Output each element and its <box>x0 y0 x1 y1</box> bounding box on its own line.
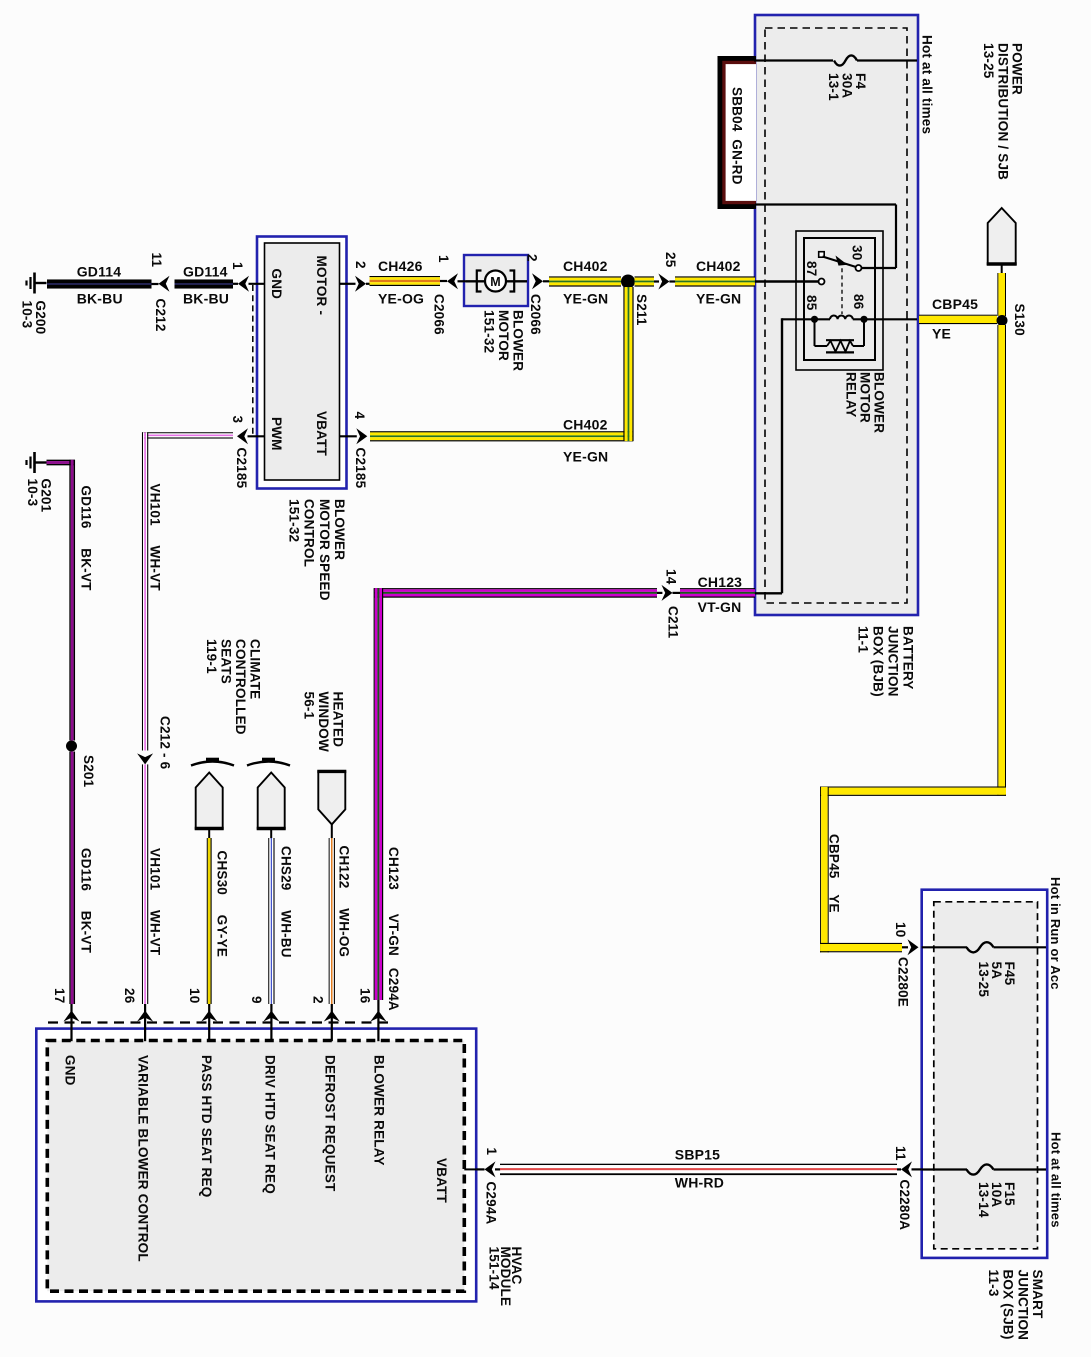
svg-text:CBP45 YE: CBP45 YE <box>827 834 842 913</box>
U1 pin 4 arrow <box>356 428 367 444</box>
U1 pin 3 arrow <box>237 428 248 444</box>
wire pin4 stub <box>340 435 357 437</box>
svg-text:CH402: CH402 <box>563 258 608 274</box>
svg-text:YE-GN: YE-GN <box>563 449 608 465</box>
relay inner box <box>804 238 875 360</box>
ground G200 <box>27 273 47 294</box>
svg-text:BOX (BJB): BOX (BJB) <box>871 626 886 697</box>
bracket over climate seats arrows <box>191 759 290 765</box>
wire pin2 stub <box>340 283 356 285</box>
svg-text:JUNCTION: JUNCTION <box>886 626 901 697</box>
svg-text:PWM: PWM <box>269 417 284 451</box>
HVAC module box outline <box>36 1029 476 1302</box>
svg-text:VH101 WH-VT: VH101 WH-VT <box>148 848 163 956</box>
svg-text:3: 3 <box>230 416 245 424</box>
wire relay coil line right <box>853 318 917 320</box>
wire stub below heated window pentagon <box>331 825 333 840</box>
wire lead pin2 <box>331 1004 333 1041</box>
svg-text:86: 86 <box>851 294 866 310</box>
wire CH402 YE-GN vertical from S211 <box>623 287 633 441</box>
svg-text:CH123 VT-GN C294A: CH123 VT-GN C294A <box>386 847 401 1011</box>
svg-text:Hot at all times: Hot at all times <box>1048 1132 1063 1228</box>
wire F4 feed (y=60.5) left segment <box>754 59 833 61</box>
wire CBP45 YE horizontal from BJB <box>919 315 997 324</box>
svg-text:10: 10 <box>187 988 202 1003</box>
SJB pin 10 arrow <box>908 939 919 955</box>
motor pin 1 arrow <box>447 273 458 289</box>
svg-text:10-3: 10-3 <box>20 301 35 329</box>
svg-text:VARIABLE BLOWER CONTROL: VARIABLE BLOWER CONTROL <box>135 1055 150 1262</box>
svg-text:VH101 WH-VT: VH101 WH-VT <box>148 484 163 592</box>
svg-text:Hot at all times: Hot at all times <box>920 35 935 134</box>
label BLOWER MOTOR SPEED CONTROL 151-32 (U1) <box>287 499 348 601</box>
label HVAC MODULE 151-14 <box>487 1247 524 1307</box>
label POWER DISTRIBUTION / SJB 13-25 <box>981 43 1024 180</box>
wire lead after C211 <box>673 592 681 594</box>
wire lead after pin 25 <box>669 280 675 282</box>
wire lead pin9 <box>270 1004 272 1041</box>
svg-text:CH402: CH402 <box>696 258 741 274</box>
svg-text:C2066: C2066 <box>432 294 447 335</box>
wire CH123 VT-GN to BJB <box>680 588 755 598</box>
wire lead pin16 <box>377 1000 379 1041</box>
relay resistor loop left <box>814 319 816 346</box>
svg-text:SMART: SMART <box>1030 1270 1045 1320</box>
wire GD116 BK-VT vertical lower <box>69 752 75 1005</box>
U1 pin 1 arrow <box>238 276 249 292</box>
svg-text:BK-BU: BK-BU <box>77 291 123 307</box>
wire motor pin1 stub <box>458 280 467 282</box>
svg-text:GD116 BK-VT: GD116 BK-VT <box>79 486 94 592</box>
svg-text:2: 2 <box>353 261 368 269</box>
wire CH123 inside BJB horizontal <box>754 592 782 594</box>
label G200 10-3 <box>20 301 48 335</box>
wire CH402 YE-GN segment B <box>675 276 755 286</box>
svg-text:M: M <box>490 275 501 289</box>
svg-text:GD114: GD114 <box>77 264 122 280</box>
U1 pin 2 arrow <box>355 276 366 292</box>
svg-text:4: 4 <box>352 412 367 420</box>
relay resistor R1 <box>826 340 854 352</box>
ground G201 <box>27 452 47 473</box>
off-page arrow (pass seat) <box>196 773 223 829</box>
fuse F4 <box>834 55 857 65</box>
svg-text:87: 87 <box>804 261 819 276</box>
svg-text:BLOWER: BLOWER <box>511 310 526 371</box>
relay switch blade <box>823 257 857 268</box>
wire GD116 BK-VT horizontal stub <box>47 460 75 466</box>
svg-text:CH122 WH-OG: CH122 WH-OG <box>337 846 352 958</box>
relay pin 87 contact <box>819 279 825 285</box>
svg-text:YE-GN: YE-GN <box>696 291 741 307</box>
wire stub below pass pentagon <box>208 829 210 840</box>
svg-text:DISTRIBUTION / SJB: DISTRIBUTION / SJB <box>995 43 1010 180</box>
wire VBATT stub inside HVAC <box>464 1168 476 1170</box>
svg-text:YE: YE <box>932 326 951 342</box>
wire VBATT lead <box>476 1168 484 1170</box>
wire GD114 BK-BU segment 2 <box>175 279 234 288</box>
svg-text:CH426: CH426 <box>378 258 423 274</box>
svg-text:1: 1 <box>484 1148 499 1156</box>
wire CH123 inside BJB riser <box>781 318 783 593</box>
svg-text:SEATS: SEATS <box>218 639 233 684</box>
svg-text:WH-RD: WH-RD <box>675 1175 724 1191</box>
svg-text:1: 1 <box>436 255 451 263</box>
svg-text:MOTOR -: MOTOR - <box>314 256 329 316</box>
pin 25 arrow <box>658 274 669 290</box>
relay actuation dashed line <box>841 261 843 314</box>
wire GD114 BK-BU segment 1 <box>47 279 152 288</box>
HVAC pin 16 arrow <box>370 1011 386 1022</box>
smart junction box (SJB) outline <box>922 890 1047 1258</box>
label F15 10A 13-14 <box>976 1182 1017 1218</box>
svg-text:VBATT: VBATT <box>434 1158 449 1204</box>
wire GD116 BK-VT vertical upper <box>69 460 75 741</box>
svg-text:26: 26 <box>122 988 137 1004</box>
label SMART JUNCTION BOX (SJB) 11-3 <box>986 1270 1045 1341</box>
svg-text:BLOWER RELAY: BLOWER RELAY <box>371 1055 386 1166</box>
svg-text:C294A: C294A <box>484 1182 499 1225</box>
blower motor speed control box outline U1 <box>257 237 347 489</box>
BJB inner dashed border <box>765 28 907 603</box>
svg-text:S201: S201 <box>81 755 96 788</box>
label CLIMATE CONTROLLED SEATS 119-1 <box>204 639 263 735</box>
svg-text:C212: C212 <box>153 299 168 332</box>
svg-text:9: 9 <box>249 996 264 1004</box>
wire relay coil line left <box>782 318 830 320</box>
HVAC pin 17 arrow <box>64 1011 80 1022</box>
wire lead to C211 <box>657 592 662 594</box>
wire CBP45 YE horizontal to SJB <box>820 943 902 952</box>
wire lead to U1 pin 1 <box>233 283 238 285</box>
HVAC pin 10 arrow <box>201 1011 217 1022</box>
wire VH101 WH-VT vertical lower <box>142 764 148 1004</box>
svg-text:BATTERY: BATTERY <box>901 626 916 690</box>
svg-text:10: 10 <box>893 922 908 937</box>
junction dot relay 85 <box>811 316 818 323</box>
U1 internal dashed link pin1-pin3 <box>252 285 254 434</box>
svg-text:BK-BU: BK-BU <box>183 291 229 307</box>
svg-text:BLOWER: BLOWER <box>332 499 347 560</box>
wire pin3 stub <box>248 435 266 437</box>
label HEATED WINDOW 56-1 <box>301 692 345 752</box>
svg-text:25: 25 <box>663 252 678 268</box>
svg-text:C2185: C2185 <box>353 448 368 489</box>
off-page arrow (power distribution) <box>988 208 1016 264</box>
svg-text:VBATT: VBATT <box>314 411 329 457</box>
HVAC pin 26 arrow <box>137 1011 153 1022</box>
wire SBB04 GN-RD thick feed bus <box>718 56 757 209</box>
wire CBP45 YE horizontal jog <box>820 787 1006 796</box>
svg-text:BLOWER: BLOWER <box>872 372 887 433</box>
svg-text:DEFROST REQUEST: DEFROST REQUEST <box>322 1055 337 1192</box>
off-page arrow (driver seat) <box>258 773 285 829</box>
wire lead pin17 <box>70 1004 72 1041</box>
svg-text:13-25: 13-25 <box>981 43 996 79</box>
label F4 30A 13-1 <box>826 73 868 101</box>
connector C212-6 arrow <box>137 753 153 764</box>
wire VH101 WH-VT vertical upper <box>142 432 148 750</box>
HVAC module inner dashed border <box>47 1041 464 1292</box>
connector C212 arrow <box>159 276 170 292</box>
svg-text:CHS30 GY-YE: CHS30 GY-YE <box>215 851 230 958</box>
svg-text:C2185: C2185 <box>234 448 249 489</box>
blower motor speed control inner box <box>265 243 340 480</box>
wire CBP45 YE vertical upper <box>997 273 1006 316</box>
relay switch blade fixed contact square <box>819 252 825 258</box>
connector C211 arrow <box>662 585 673 601</box>
battery junction box (BJB) outline <box>755 15 918 615</box>
svg-text:MOTOR: MOTOR <box>858 372 873 423</box>
HVAC pin 9 arrow <box>263 1011 279 1022</box>
wire lead to C212 <box>152 283 159 285</box>
svg-text:CONTROL: CONTROL <box>302 499 317 567</box>
wire CH402 YE-GN segment A <box>549 276 621 286</box>
svg-text:119-1: 119-1 <box>204 639 219 674</box>
svg-text:RELAY: RELAY <box>844 372 859 418</box>
svg-text:POWER: POWER <box>1010 43 1025 95</box>
wire lead to SJB pin 10 <box>902 946 908 948</box>
svg-text:PASS HTD SEAT REQ: PASS HTD SEAT REQ <box>199 1055 214 1197</box>
blower motor M symbol <box>477 271 514 292</box>
wire SBB04 to relay pin 30 horizontal (y=204.5) <box>755 203 896 205</box>
HVAC pin 1 arrow (VBATT) <box>485 1161 496 1177</box>
svg-text:C2280A: C2280A <box>897 1180 912 1231</box>
svg-text:30: 30 <box>850 245 865 260</box>
relay resistor loop right <box>863 319 865 346</box>
wire lead SBP15 <box>495 1168 501 1170</box>
svg-text:YE-OG: YE-OG <box>378 291 424 307</box>
svg-text:CBP45: CBP45 <box>932 296 978 312</box>
svg-text:C211: C211 <box>666 606 681 639</box>
svg-text:85: 85 <box>804 295 819 311</box>
svg-text:CH123: CH123 <box>698 574 743 590</box>
wire lead to pin 25 <box>654 280 659 282</box>
wire lead pin26 <box>144 1004 146 1041</box>
wire relay pin30 riser <box>895 205 897 269</box>
svg-text:CHS29 WH-BU: CHS29 WH-BU <box>279 846 294 958</box>
wire to relay pin 30 <box>861 267 896 269</box>
svg-text:11: 11 <box>149 253 164 268</box>
wire F15 row right <box>994 1168 1047 1170</box>
svg-text:10-3: 10-3 <box>25 479 40 507</box>
wire F15 row <box>922 1168 967 1170</box>
svg-text:BOX (SJB): BOX (SJB) <box>1001 1270 1016 1340</box>
relay blade arrowhead <box>836 256 848 266</box>
wire lead CH402 <box>543 280 550 282</box>
svg-text:YE-GN: YE-GN <box>563 291 608 307</box>
wire CH123 VT-GN vertical <box>374 588 384 1000</box>
relay pin 30 contact <box>856 265 862 271</box>
label BLOWER MOTOR RELAY <box>844 372 887 433</box>
wire SBP15 WH-RD <box>500 1164 897 1175</box>
svg-text:GD116 BK-VT: GD116 BK-VT <box>79 848 94 954</box>
svg-text:1: 1 <box>230 262 245 270</box>
connector C294A dashed line across HVAC pins <box>48 1021 392 1023</box>
SJB inner dashed border <box>934 902 1038 1249</box>
wire CH402 after S211 <box>635 276 655 286</box>
svg-text:DRIV HTD SEAT REQ: DRIV HTD SEAT REQ <box>263 1055 278 1194</box>
fuse F45 <box>967 942 994 952</box>
svg-text:11-1: 11-1 <box>856 626 871 653</box>
svg-text:GD114: GD114 <box>183 264 228 280</box>
svg-text:CH402: CH402 <box>563 417 608 433</box>
relay resistor lead right <box>853 345 864 347</box>
junction S201 <box>66 741 77 752</box>
svg-text:MOTOR SPEED: MOTOR SPEED <box>317 499 332 601</box>
svg-text:11: 11 <box>893 1146 908 1161</box>
svg-text:SBB04 GN-RD: SBB04 GN-RD <box>730 87 745 185</box>
off-page arrow (heated window) <box>318 771 345 824</box>
svg-text:14: 14 <box>664 569 679 585</box>
label G201 10-3 <box>25 479 53 513</box>
wire VH101 WH-VT horizontal <box>142 432 233 438</box>
wire CH426 YE-OG <box>370 276 441 286</box>
wire CHS29 WH-BU <box>268 838 274 1004</box>
wire CH402 YE-GN corner+horizontal to pin4 <box>370 431 633 441</box>
svg-text:S130: S130 <box>1012 304 1027 336</box>
svg-text:151-14: 151-14 <box>487 1247 502 1291</box>
wire lead to motor pin1 <box>440 280 447 282</box>
wire stub below power arrow <box>1001 265 1003 275</box>
SJB pin 11 arrow <box>901 1161 912 1177</box>
svg-text:GND: GND <box>63 1055 78 1086</box>
label BLOWER MOTOR 151-32 (M1) <box>482 310 526 371</box>
svg-text:151-32: 151-32 <box>482 310 497 353</box>
svg-text:2: 2 <box>311 996 326 1004</box>
svg-text:13-1: 13-1 <box>826 73 841 101</box>
relay coil <box>830 316 853 320</box>
svg-text:SBP15: SBP15 <box>675 1147 720 1163</box>
wire through motor box <box>466 280 527 282</box>
relay outer box <box>796 231 883 370</box>
svg-text:GND: GND <box>269 269 284 300</box>
svg-text:13-25: 13-25 <box>976 962 991 998</box>
svg-text:11-3: 11-3 <box>986 1270 1001 1297</box>
junction dot relay 86 <box>860 316 867 323</box>
wire CH122 WH-OG <box>329 838 335 1004</box>
wire relay pin 87 lead <box>754 280 819 283</box>
wire CHS30 GY-YE <box>207 838 212 1004</box>
wire F45 row right <box>994 946 1047 948</box>
wire F45 row <box>922 946 967 948</box>
relay resistor lead left <box>815 345 828 347</box>
svg-text:MOTOR: MOTOR <box>496 310 511 361</box>
wire CBP45 YE vertical long <box>997 325 1006 796</box>
label F45 5A 13-25 <box>976 962 1017 998</box>
wire lead to SJB pin 11 <box>897 1168 901 1170</box>
fuse F15 <box>967 1164 994 1174</box>
svg-text:JUNCTION: JUNCTION <box>1015 1270 1030 1341</box>
svg-text:56-1: 56-1 <box>301 692 316 720</box>
svg-text:VT-GN: VT-GN <box>698 599 742 615</box>
wire CH123 VT-GN horizontal to C211 <box>374 588 657 598</box>
svg-text:151-32: 151-32 <box>287 499 302 542</box>
wire lead CH426 <box>366 283 370 285</box>
label BATTERY JUNCTION BOX (BJB) 11-1 <box>856 626 916 697</box>
svg-text:S211: S211 <box>634 294 649 326</box>
svg-text:CLIMATE: CLIMATE <box>248 639 263 699</box>
wire pin 11 tail <box>912 1168 922 1170</box>
svg-text:WINDOW: WINDOW <box>316 692 331 752</box>
junction S130 <box>997 315 1008 326</box>
wire stub below driver pentagon <box>270 829 272 840</box>
wire CBP45 YE vertical 2 <box>820 787 829 953</box>
svg-text:17: 17 <box>52 988 67 1003</box>
HVAC pin 2 arrow <box>324 1011 340 1022</box>
svg-text:13-14: 13-14 <box>976 1182 991 1218</box>
svg-text:CONTROLLED: CONTROLLED <box>233 639 248 735</box>
svg-text:16: 16 <box>358 988 373 1004</box>
svg-text:2: 2 <box>525 254 540 262</box>
wire lead pin10 <box>208 1004 210 1041</box>
blower motor box outline M1 <box>464 255 528 306</box>
motor pin 2 arrow <box>532 273 543 289</box>
svg-text:Hot in Run or Acc: Hot in Run or Acc <box>1048 877 1063 990</box>
svg-text:C2280E: C2280E <box>896 957 911 1007</box>
svg-text:HEATED: HEATED <box>331 692 346 748</box>
wire pin1 stub <box>249 283 266 285</box>
svg-text:C212 - 6: C212 - 6 <box>158 716 173 770</box>
svg-text:C2066: C2066 <box>528 294 543 335</box>
wire F4 feed right segment <box>857 59 917 61</box>
junction S211 <box>621 275 635 289</box>
